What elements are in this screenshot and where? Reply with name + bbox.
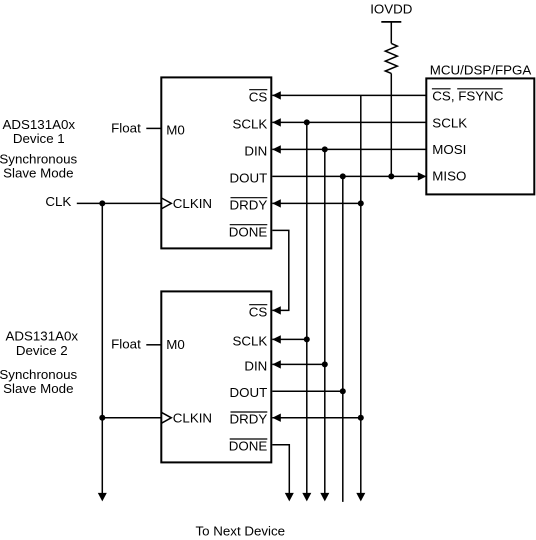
pin M0 wire (U2): [146, 344, 161, 346]
arrow into SCLK (U2): [272, 335, 281, 343]
svg-text:To Next Device: To Next Device: [195, 523, 285, 538]
junction DIN bus: [322, 146, 328, 152]
wire DOUT net (U1 to MISO): [272, 175, 425, 177]
svg-text:CLKIN: CLKIN: [173, 410, 212, 425]
pin label DRDY (U2): [230, 412, 268, 427]
arrow DIN to next device: [320, 493, 329, 502]
label Float (device 2): [111, 336, 141, 351]
wire DOUT2 branch: [272, 390, 343, 392]
wire resistor to DOUT net: [390, 73, 392, 176]
junction DOUT bus: [340, 173, 346, 179]
arrow into DIN (U1): [272, 145, 281, 153]
svg-text:M0: M0: [166, 123, 185, 138]
pin label CS (U2): [249, 304, 268, 319]
svg-text:ADS131A0x: ADS131A0x: [5, 329, 78, 344]
arrow CLK to next device: [98, 493, 107, 502]
svg-text:MCU/DSP/FPGA: MCU/DSP/FPGA: [430, 63, 532, 78]
pin CLKIN clock triangle (U1): [161, 198, 171, 209]
arrow into SCLK (U1): [272, 118, 281, 126]
wire DONE2 to next device: [272, 445, 289, 494]
pin label DRDY (U1): [230, 197, 268, 212]
wire DIN2 branch: [272, 363, 325, 365]
junction pull-up on DOUT net: [388, 173, 394, 179]
MCU U3 box: [426, 78, 534, 194]
svg-text:DIN: DIN: [244, 143, 267, 158]
overline DRDY (U2): [231, 411, 268, 413]
wire DRDY2 branch: [272, 417, 361, 419]
svg-text:SCLK: SCLK: [232, 116, 267, 131]
svg-text:DOUT: DOUT: [230, 170, 268, 185]
pin label DONE (U1): [229, 224, 268, 239]
pin label MISO (MCU): [432, 168, 466, 183]
svg-text:Synchronous: Synchronous: [0, 151, 78, 166]
wire FSYNC bus vertical: [360, 95, 362, 493]
pin label CS,FSYNC (MCU): [432, 89, 503, 104]
arrow into DRDY (U2): [272, 414, 281, 422]
svg-text:CS: CS: [249, 304, 268, 319]
wire DIN bus vertical: [324, 149, 326, 493]
overline DONE (U1): [230, 224, 268, 226]
arrow FSYNC bus to next device: [356, 493, 365, 502]
wire CLK bus vertical: [101, 203, 103, 493]
junction CLK at CLKIN2: [99, 415, 105, 421]
svg-text:MOSI: MOSI: [432, 142, 466, 157]
pin label CLKIN (U2): [173, 410, 212, 425]
pin label MOSI (MCU): [432, 142, 466, 157]
svg-text:DIN: DIN: [244, 358, 267, 373]
wire SCLK2 branch: [272, 338, 307, 340]
svg-text:CLK: CLK: [45, 194, 71, 209]
pin label SCLK (U2): [232, 333, 267, 348]
pin label DOUT (U2): [230, 385, 268, 400]
junction DIN2: [322, 361, 328, 367]
svg-text:DONE: DONE: [229, 224, 268, 239]
arrow SCLK to next device: [302, 493, 311, 502]
resistor pull-up: [385, 43, 397, 73]
pin label SCLK (MCU): [432, 115, 467, 130]
wire SCLK bus vertical: [306, 122, 308, 493]
arrow into DIN (U2): [272, 360, 281, 368]
junction CLK branch: [99, 200, 105, 206]
node CLK label: [45, 194, 71, 209]
pin label M0 (U2): [166, 337, 185, 352]
label Synchronous Slave Mode (device 1): [0, 151, 78, 180]
arrow into CS (U1): [272, 91, 281, 99]
svg-text:Float: Float: [111, 120, 141, 135]
wire DONE1 to CS2: [272, 230, 289, 310]
arrow into CS (U2): [272, 306, 281, 314]
svg-text:M0: M0: [166, 337, 185, 352]
svg-text:Float: Float: [111, 336, 141, 351]
svg-text:CLKIN: CLKIN: [173, 196, 212, 211]
label Float (device 1): [111, 120, 141, 135]
pin label DIN (U1): [244, 143, 267, 158]
svg-text:SCLK: SCLK: [432, 115, 467, 130]
svg-text:MISO: MISO: [432, 168, 466, 183]
arrow into DRDY (U1): [272, 199, 281, 207]
svg-text:DRDY: DRDY: [230, 412, 268, 427]
pin label DOUT (U1): [230, 170, 268, 185]
pin label DIN (U2): [244, 358, 267, 373]
junction SCLK bus: [304, 119, 310, 125]
device U1 ADS131A0x Device 1 box: [161, 77, 271, 248]
wire DIN net (MOSI to U1): [272, 148, 426, 150]
wire DRDY net (U1 to FSYNC bus): [272, 202, 361, 204]
pin label CS (U1): [249, 89, 268, 104]
pin label DONE (U2): [229, 439, 268, 454]
wire SCLK net (MCU to U1): [272, 121, 426, 123]
overline CS (MCU): [432, 88, 451, 90]
overline FSYNC (MCU): [457, 88, 502, 90]
svg-text:Synchronous: Synchronous: [0, 367, 78, 382]
wire CS net (MCU to U1): [272, 94, 426, 96]
junction SCLK2: [304, 336, 310, 342]
wire IOVDD rail to resistor: [390, 22, 392, 44]
wire CLK to CLKIN1: [77, 202, 162, 204]
svg-text:IOVDD: IOVDD: [370, 1, 412, 16]
svg-text:DONE: DONE: [229, 439, 268, 454]
pin M0 wire (U1): [146, 127, 161, 129]
arrow into MISO (MCU): [418, 172, 427, 180]
device U2 ADS131A0x Device 2 box: [161, 291, 271, 462]
svg-text:Device 2: Device 2: [16, 343, 68, 358]
wire CLK branch to CLKIN2: [102, 417, 161, 419]
svg-text:Slave Mode: Slave Mode: [3, 381, 73, 396]
pin label CLKIN (U1): [173, 196, 212, 211]
wire DOUT bus vertical: [342, 176, 344, 502]
label Synchronous Slave Mode (device 2): [0, 367, 78, 396]
svg-text:DOUT: DOUT: [230, 385, 268, 400]
label ADS131A0x Device 2: [5, 329, 78, 358]
overline DRDY (U1): [231, 197, 268, 199]
svg-text:CS: CS: [249, 89, 268, 104]
power rail IOVDD: [381, 21, 401, 23]
label To Next Device: [195, 523, 285, 538]
svg-text:Slave Mode: Slave Mode: [3, 165, 73, 180]
pin CLKIN clock triangle (U2): [161, 412, 171, 423]
svg-text:DRDY: DRDY: [230, 197, 268, 212]
pin label M0 (U1): [166, 123, 185, 138]
pin label SCLK (U1): [232, 116, 267, 131]
svg-text:CS, FSYNC: CS, FSYNC: [432, 89, 503, 104]
arrow DONE2 to next device: [285, 493, 294, 502]
junction DOUT2: [340, 388, 346, 394]
junction DRDY1 on FSYNC bus: [358, 200, 364, 206]
label ADS131A0x Device 1: [2, 117, 75, 146]
overline CS (U2): [249, 304, 267, 306]
svg-text:SCLK: SCLK: [232, 333, 267, 348]
overline DONE (U2): [230, 438, 268, 440]
svg-text:ADS131A0x: ADS131A0x: [2, 117, 75, 132]
overline CS (U1): [249, 89, 267, 91]
svg-text:Device 1: Device 1: [13, 131, 65, 146]
junction DRDY2 on FSYNC bus: [358, 415, 364, 421]
